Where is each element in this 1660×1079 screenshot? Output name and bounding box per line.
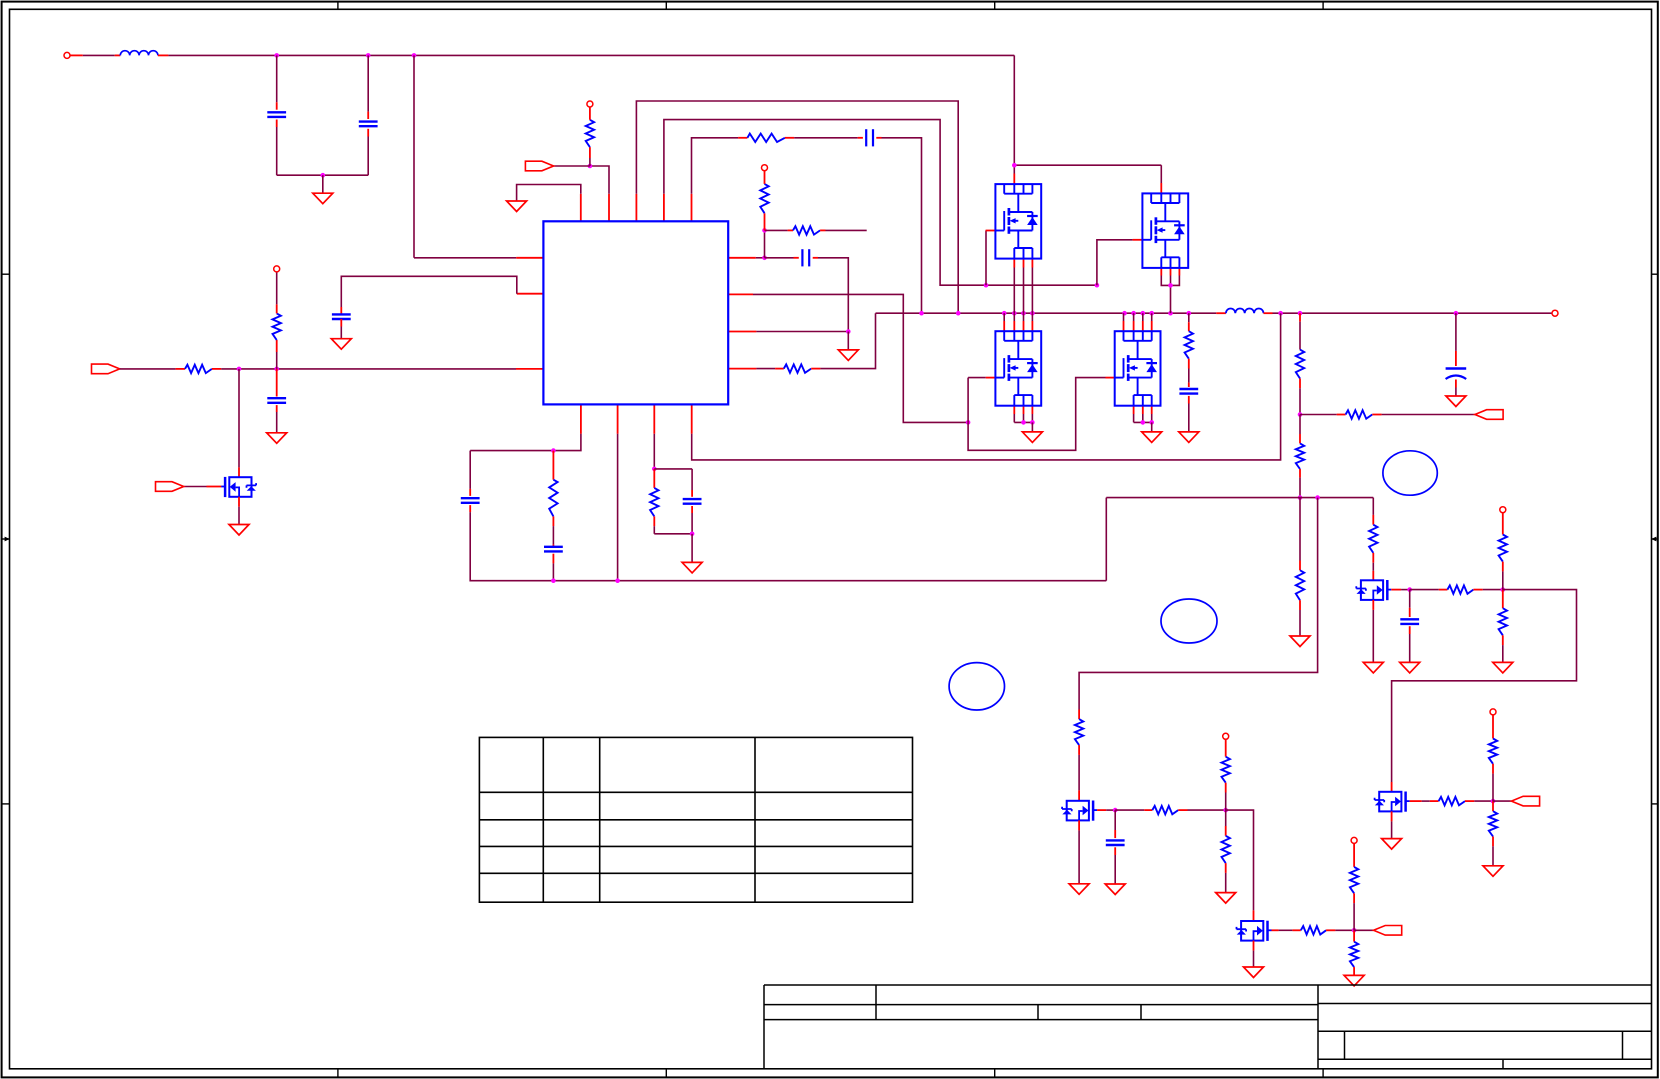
wire [1031,313,1033,321]
wire [1299,561,1301,571]
node HS2-gate [1095,283,1100,288]
wire [1188,396,1190,404]
ground [682,562,702,573]
wire [277,174,369,176]
node bus [1298,311,1303,316]
wire [1465,800,1474,802]
wire [1353,893,1355,903]
wire [653,526,655,534]
wire [322,175,324,193]
wire [1455,380,1457,388]
wire [552,451,554,480]
ground [1363,662,1383,673]
wire [1335,929,1354,931]
ground [1216,893,1236,904]
wire [1078,755,1080,791]
capacitor C9 (polarized) [1446,369,1467,380]
wire [276,55,278,102]
wire [1492,764,1494,774]
wire [654,533,692,535]
wire [1391,782,1393,792]
node FB2 [1298,495,1303,500]
wire [1133,414,1135,422]
wire [813,257,818,259]
wire [1013,321,1015,331]
wire [692,138,739,194]
wire [765,229,788,231]
wire [1142,313,1144,321]
wire [1031,422,1033,432]
wire [517,293,544,295]
wire [1161,276,1179,286]
wire [1023,313,1025,321]
capacitor C13 [332,314,351,319]
wire [1188,383,1190,387]
wire [764,171,766,184]
wire [554,165,590,167]
wire [617,434,619,581]
node bus [1012,311,1017,316]
wire [1492,801,1494,811]
wire [636,101,958,313]
wire [1299,434,1301,443]
wire [1253,941,1255,951]
wire [589,147,591,158]
wire [1105,498,1107,581]
wire [1134,421,1152,423]
wire [756,331,848,333]
wire [1299,379,1301,389]
wire [207,486,222,488]
resistor R26 [1350,942,1358,967]
resistor R13 [1369,525,1377,553]
wire [985,231,987,286]
wire [276,102,278,109]
wire [413,55,415,257]
wire [470,512,1106,581]
ground [1344,975,1364,986]
node bus [1454,311,1459,316]
op-amp U1 (controller IC) [543,221,728,404]
wire [1279,929,1293,931]
wire [1502,635,1504,645]
wire [986,377,996,379]
node B2 [615,578,620,583]
wire [1372,498,1374,515]
wire [764,213,766,230]
inductor L2 [1226,309,1264,314]
transistor Q1D (LS2) [1115,331,1161,406]
wire [1474,800,1493,802]
wire [820,313,875,368]
wire [756,368,775,370]
transistor Q5 [1356,580,1391,600]
wire [1031,268,1033,314]
wire [1114,847,1116,855]
wire [1160,267,1162,275]
resistor R3 [793,226,820,234]
node B3b [690,532,695,537]
wire [1142,406,1144,414]
wire [1031,321,1033,331]
wire [552,554,554,564]
wire [367,129,369,137]
capacitor C3 [866,129,873,146]
wire [552,526,554,544]
wire [858,137,863,139]
wire [1300,414,1337,416]
wire [1225,783,1227,793]
wire [788,229,793,231]
wire [1097,809,1106,811]
node LS2-S1 [1141,420,1146,425]
wire [968,377,986,379]
wire [818,258,848,332]
node bus [1187,311,1192,316]
wire SW bus [876,312,1217,314]
wire [1023,321,1025,331]
capacitor C1 [267,112,286,117]
wire [728,257,756,259]
wire [238,467,240,477]
wire [168,54,1014,56]
wire [176,368,185,370]
node Q4-G [1352,928,1357,933]
wire [794,137,858,139]
node VIN-C2 [366,53,371,58]
wire [340,327,342,339]
transistor Q1A (HS1) [995,184,1041,259]
wire [1142,321,1144,331]
wire [589,107,591,120]
wire [1031,406,1033,414]
node LS1-S1 [1021,420,1026,425]
transistor Q2 [221,477,256,497]
wire [1410,589,1439,591]
wire [1023,406,1025,414]
wire [1382,414,1475,416]
wire [115,54,121,56]
wire [1493,800,1511,802]
wire [1455,388,1457,397]
wire [552,544,554,546]
wire [1502,571,1504,589]
wire [414,257,516,259]
wire [276,412,278,433]
wire [1013,268,1015,314]
resistor R24 [1301,926,1326,934]
wire [1299,498,1301,561]
wire [1013,259,1015,268]
wire [238,507,240,525]
ground [229,525,249,536]
wire [1014,164,1161,166]
wire [1225,826,1227,836]
wire [1455,351,1457,366]
ground [1069,884,1089,895]
wire [367,112,369,119]
resistor R11 [1296,443,1304,469]
wire [1031,259,1033,268]
ellipse marker 1 [1383,451,1437,495]
resistor R8 [650,488,658,517]
wire [1225,739,1227,756]
terminal pullup A [1500,507,1506,513]
wire [785,137,794,139]
resistor R7 [549,480,557,517]
wire [1391,589,1401,591]
wire [1151,406,1153,414]
terminal pullup B [1223,733,1229,739]
wire [765,257,794,259]
wire [184,486,207,488]
wire [753,294,968,422]
node bus [1030,311,1035,316]
wire [1372,553,1374,563]
wire [1106,377,1115,379]
terminal pullup C [1351,837,1357,843]
wire [1264,312,1273,314]
wire [1372,571,1374,581]
title block [764,985,1652,1069]
wire [653,469,655,488]
terminal VIN [64,52,70,58]
wire [811,368,820,370]
wire [1392,590,1577,782]
node C1-C2-gnd [321,173,326,178]
ground [1400,662,1420,673]
wire [1097,240,1133,285]
terminal pullup D [1490,709,1496,715]
wire [1410,800,1422,802]
wire [691,469,693,490]
ground [1483,866,1503,877]
wire [1133,313,1135,321]
ellipse marker 2 [1161,599,1217,643]
wire [470,434,581,451]
wire [1353,843,1355,867]
ground [1290,636,1310,647]
wire [728,368,756,370]
wire [1188,809,1226,811]
transistor Q1C (LS1) [995,331,1041,406]
resistor R12 [1296,570,1304,600]
wire [1372,563,1374,571]
wire [1391,811,1393,821]
ground [838,350,858,361]
ground [313,193,333,204]
capacitor C10 [1400,619,1419,624]
wire [1483,589,1503,591]
wire [1078,790,1080,800]
wire [158,54,169,56]
wire [1253,951,1255,967]
node bus [1168,311,1173,316]
wire [1409,590,1411,608]
node bus [1131,311,1136,316]
ground [1244,967,1264,978]
wire [1492,774,1494,802]
capacitor C12 [267,398,286,403]
wire [1391,821,1393,838]
resistor R19 [1489,811,1497,836]
wire [653,404,655,433]
wire [1188,322,1190,331]
node FB3 [1315,495,1320,500]
wire [1114,855,1116,884]
wire [1372,600,1374,610]
wire [1160,165,1162,183]
wire [691,513,693,534]
wire [1492,715,1494,739]
wire [1502,645,1504,662]
node B1b [551,578,556,583]
wire [341,276,517,307]
wire [1502,590,1504,609]
wire [1225,863,1227,873]
node VCC-node [588,164,593,169]
wire [1372,610,1374,663]
wire [756,257,765,259]
wire [212,368,221,370]
wire [1123,313,1125,321]
wire [70,54,83,56]
wire [1170,267,1172,275]
wire [1142,414,1144,422]
node COMP [762,255,767,260]
revision table [479,737,912,902]
transistor Q1B (HS2) [1142,193,1188,268]
off-page connector C [1374,926,1402,936]
wire [1115,809,1144,811]
off-page connector Q2-G [156,482,184,492]
wire [1144,809,1152,811]
wire [738,137,747,139]
wire [1078,710,1080,720]
wire [1133,321,1135,331]
wire [276,272,278,304]
node EN1 [237,367,242,372]
node Q5-out [1501,587,1506,592]
wire [1372,515,1374,525]
off-page connector D [1511,796,1539,806]
ground [507,201,527,212]
wire [1299,388,1301,414]
wire [1216,312,1226,314]
wire [516,257,543,259]
wire [1299,610,1301,636]
wire [516,368,543,370]
wire [590,166,609,194]
wire [1031,414,1033,422]
capacitor C7 [544,547,563,552]
capacitor C8 [683,499,702,504]
wire [876,137,881,139]
wire [1225,810,1227,826]
wire [1253,910,1255,921]
wire [1079,498,1318,710]
ground [1446,396,1466,407]
node LS1-S2 [1030,420,1035,425]
resistor R28 [273,313,281,340]
ground [1142,432,1162,443]
node Q3-G [1113,808,1118,813]
wire [238,369,240,468]
wire [276,352,278,369]
wire [1123,321,1125,331]
wire [692,313,1281,460]
wire [1292,929,1300,931]
capacitor C5 [1179,389,1198,394]
node VIN-C1 [274,53,279,58]
node HS-D [1012,163,1017,168]
wire [1151,321,1153,331]
inductor L1 [120,51,158,56]
wire [1003,321,1005,331]
wire [120,368,176,370]
wire [1023,259,1025,268]
wire [276,405,278,412]
wire [1353,903,1355,930]
wire [986,230,996,232]
node GND-pin [846,329,851,334]
wire [691,490,693,497]
wire [728,293,753,295]
wire [1492,846,1494,866]
wire [1078,830,1080,883]
wire [1023,268,1025,314]
resistor R1 [586,120,594,147]
wire [691,194,693,222]
node Q5-G [1407,587,1412,592]
node Q6-G [1491,799,1496,804]
wire [340,319,342,327]
transistor Q6 [1375,792,1410,812]
ground [331,339,351,350]
wire [1299,478,1301,498]
ground [1179,432,1199,443]
wire [1114,810,1116,830]
wire [1401,589,1410,591]
wire [1299,322,1301,350]
wire [1225,873,1227,893]
node HS1-gate [984,283,989,288]
wire [1178,267,1180,275]
wire [1409,608,1411,617]
node B1 [551,448,556,453]
wire [469,489,471,496]
wire [276,340,278,352]
wire [663,194,665,222]
wire [1299,415,1301,435]
wire [1422,800,1430,802]
wire [1372,414,1381,416]
wire [1160,183,1162,193]
node EN2 [274,367,279,372]
resistor R16 [1499,608,1507,635]
node B3 [652,467,657,472]
wire [1430,800,1439,802]
wire [552,563,554,580]
off-page connector EN [92,364,120,374]
wire [1151,422,1153,432]
node bus [1141,311,1146,316]
node bus [919,311,924,316]
capacitor C11 [1106,840,1125,845]
wire [653,516,655,526]
wire [1013,165,1015,173]
wire [1023,414,1025,422]
